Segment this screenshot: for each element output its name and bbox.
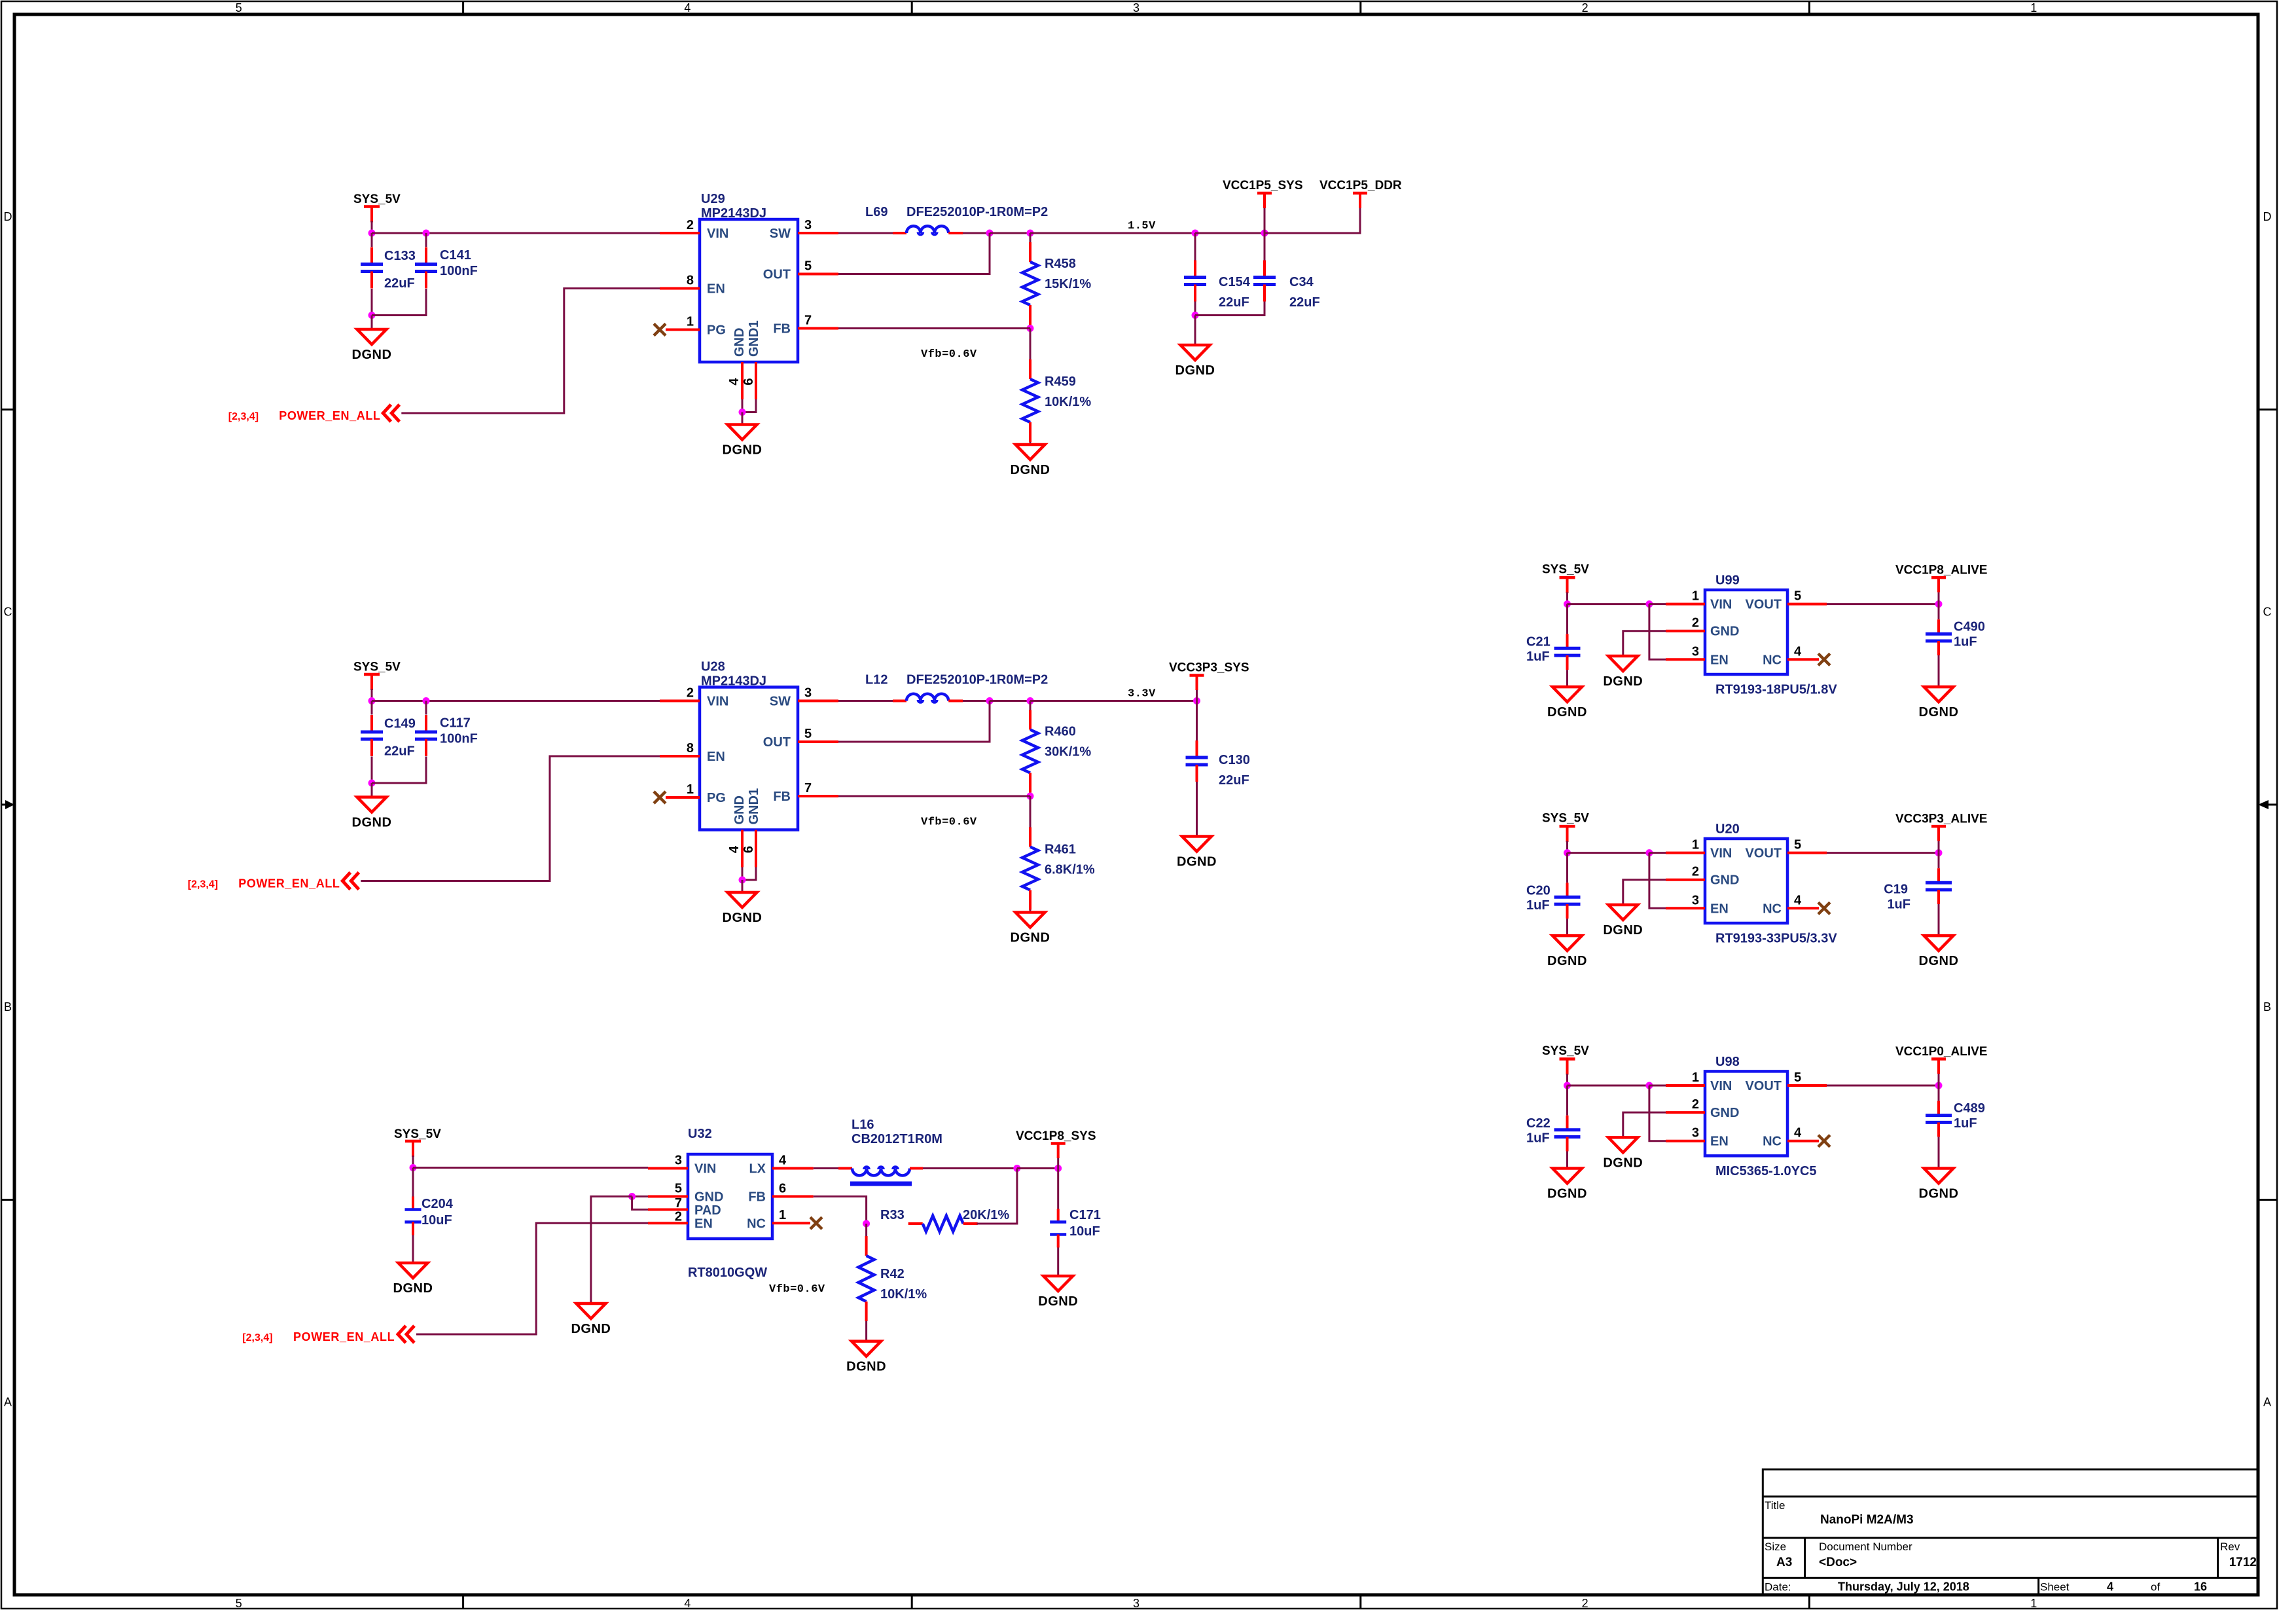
power symbol VCC3P3_SYS <box>1169 661 1249 691</box>
wire <box>1827 852 1939 854</box>
svg-text:5: 5 <box>236 1597 242 1610</box>
wire <box>1194 233 1196 261</box>
ground DGND <box>1919 936 1959 968</box>
svg-text:VIN: VIN <box>1710 847 1732 861</box>
ground DGND <box>1919 687 1959 720</box>
wire <box>412 1156 414 1168</box>
svg-text:DGND: DGND <box>1919 954 1959 968</box>
svg-text:VCC1P8_SYS: VCC1P8_SYS <box>1016 1129 1096 1143</box>
svg-text:C22: C22 <box>1526 1116 1551 1131</box>
svg-text:5: 5 <box>1794 838 1801 852</box>
pin 6 FB <box>772 1195 814 1198</box>
node GND/PAD tie <box>628 1193 636 1200</box>
wire <box>1194 302 1196 316</box>
capacitor C22 <box>1526 1116 1581 1152</box>
pin 5 GND <box>648 1195 688 1198</box>
svg-text:1.5V: 1.5V <box>1128 220 1156 232</box>
svg-text:DGND: DGND <box>1038 1294 1078 1309</box>
svg-text:7: 7 <box>804 781 812 795</box>
pin 3 SW <box>798 232 838 234</box>
no-connect on NC <box>810 1217 822 1229</box>
svg-text:PAD: PAD <box>694 1203 721 1218</box>
ground DGND <box>1603 905 1643 938</box>
wire <box>1030 329 1031 360</box>
wire <box>838 795 1030 797</box>
ground DGND <box>1175 345 1215 378</box>
pin number 7 <box>804 314 812 328</box>
svg-text:Vfb=0.6V: Vfb=0.6V <box>921 816 977 829</box>
wire <box>990 232 1030 234</box>
svg-text:MP2143DJ: MP2143DJ <box>701 674 766 689</box>
wire <box>371 783 373 797</box>
inductor L69 <box>865 205 1048 234</box>
svg-text:SYS_5V: SYS_5V <box>1542 563 1589 577</box>
pin number 4 <box>727 845 742 853</box>
svg-text:1712: 1712 <box>2229 1556 2257 1569</box>
pin 1 VIN <box>1666 1084 1705 1087</box>
wire <box>742 399 744 412</box>
pin number 7 <box>804 781 812 795</box>
svg-text:DGND: DGND <box>723 911 762 925</box>
svg-text:[2,3,4]: [2,3,4] <box>188 879 218 890</box>
wire <box>1566 841 1568 853</box>
wire <box>632 1197 648 1210</box>
capacitor C133 <box>361 247 416 291</box>
wire <box>1938 841 1940 853</box>
pin 4 NC <box>1787 907 1819 909</box>
svg-text:GND: GND <box>732 795 747 824</box>
svg-text:10uF: 10uF <box>1069 1224 1100 1239</box>
pin number 3 <box>1692 1126 1699 1140</box>
ground DGND <box>1547 687 1587 720</box>
svg-text:OUT: OUT <box>763 268 791 282</box>
capacitor C204 <box>405 1197 454 1235</box>
no-connect on NC <box>1818 1135 1830 1147</box>
pin 6 GND1 <box>755 830 757 867</box>
svg-text:U28: U28 <box>701 660 725 674</box>
wire <box>1030 700 1197 702</box>
svg-text:2: 2 <box>1692 1097 1699 1112</box>
wire <box>1938 593 1940 604</box>
wire <box>1649 604 1666 660</box>
pin 4 LX <box>772 1167 814 1170</box>
text output voltage <box>1128 220 1156 232</box>
wire <box>1827 1085 1939 1087</box>
ground DGND <box>1547 936 1587 968</box>
ground DGND <box>723 892 762 925</box>
svg-text:U20: U20 <box>1715 822 1740 837</box>
wire <box>591 1197 632 1304</box>
wire <box>1195 302 1265 316</box>
wire <box>1265 208 1360 233</box>
wire <box>742 880 744 892</box>
node feedback divider top <box>1027 230 1034 237</box>
svg-text:VCC3P3_SYS: VCC3P3_SYS <box>1169 661 1249 675</box>
pin 8 EN <box>660 287 700 290</box>
svg-text:100nF: 100nF <box>440 732 478 746</box>
svg-text:4: 4 <box>779 1154 787 1168</box>
wire <box>425 701 427 715</box>
pin number 2 <box>675 1210 682 1224</box>
wire <box>1938 1137 1940 1168</box>
svg-text:U32: U32 <box>688 1127 712 1141</box>
wire <box>1649 1085 1666 1141</box>
wire <box>977 1169 1017 1224</box>
svg-text:RT8010GQW: RT8010GQW <box>688 1266 767 1280</box>
inductor L12 <box>865 673 1048 702</box>
svg-text:C117: C117 <box>440 716 471 731</box>
wire <box>814 1197 867 1224</box>
wire <box>372 232 660 234</box>
svg-text:R42: R42 <box>880 1267 905 1281</box>
wire <box>425 233 427 247</box>
wire <box>372 289 426 316</box>
node SYS_5V / VIN <box>1564 1082 1571 1089</box>
wire <box>963 232 990 234</box>
node VCC1P8_SYS node <box>1054 1165 1062 1172</box>
svg-text:C: C <box>2263 605 2272 618</box>
svg-text:C154: C154 <box>1219 275 1251 289</box>
svg-text:DGND: DGND <box>1919 705 1959 720</box>
svg-text:R459: R459 <box>1045 374 1076 389</box>
pin number 7 <box>675 1196 682 1211</box>
wire <box>632 1195 648 1197</box>
svg-text:DGND: DGND <box>1011 931 1050 945</box>
wire <box>1195 232 1265 234</box>
svg-text:DGND: DGND <box>1177 855 1217 869</box>
svg-text:DGND: DGND <box>1919 1187 1959 1201</box>
svg-text:SYS_5V: SYS_5V <box>353 661 401 674</box>
net label POWER_EN_ALL <box>188 877 340 890</box>
pin number 8 <box>687 274 694 288</box>
svg-text:Title: Title <box>1765 1499 1785 1512</box>
wire <box>1827 603 1939 605</box>
pin number 4 <box>779 1154 787 1168</box>
wire <box>371 701 373 715</box>
ground DGND <box>1177 837 1217 869</box>
wire <box>1566 670 1568 687</box>
svg-text:FB: FB <box>748 1190 766 1205</box>
node SYS_5V / VIN <box>368 697 376 704</box>
svg-text:22uF: 22uF <box>1289 295 1320 310</box>
svg-text:B: B <box>4 1000 12 1013</box>
pin number 6 <box>742 846 756 853</box>
svg-text:[2,3,4]: [2,3,4] <box>228 411 259 422</box>
node input cap gnd <box>368 312 376 319</box>
svg-text:7: 7 <box>804 314 812 328</box>
svg-text:1: 1 <box>2030 1 2037 14</box>
svg-text:C: C <box>4 605 12 618</box>
wire <box>371 233 373 247</box>
wire <box>1196 701 1198 741</box>
wire <box>742 412 744 425</box>
ground DGND <box>393 1263 433 1296</box>
wire <box>1566 604 1568 634</box>
wire <box>1566 593 1568 604</box>
svg-text:NC: NC <box>1763 902 1782 916</box>
svg-text:22uF: 22uF <box>384 744 415 759</box>
pin number 5 <box>1794 838 1801 852</box>
svg-text:2: 2 <box>687 686 694 701</box>
svg-text:D: D <box>2263 210 2272 223</box>
capacitor C171 <box>1050 1208 1101 1248</box>
node SYS_5V / VIN <box>1564 849 1571 856</box>
power symbol VCC1P5_SYS <box>1223 179 1303 208</box>
power symbol VCC1P8_SYS <box>1016 1129 1096 1158</box>
pin 1 VIN <box>1666 852 1705 854</box>
node SW/OUT tie <box>986 697 994 704</box>
ground DGND <box>846 1341 886 1374</box>
svg-text:RT9193-18PU5/1.8V: RT9193-18PU5/1.8V <box>1715 683 1837 697</box>
pin 2 EN <box>648 1222 688 1224</box>
ground DGND <box>352 329 392 362</box>
svg-text:Vfb=0.6V: Vfb=0.6V <box>769 1283 825 1296</box>
wire <box>1649 1085 1666 1087</box>
wire <box>865 1321 867 1341</box>
wire <box>838 327 1030 329</box>
svg-text:DGND: DGND <box>723 443 762 458</box>
svg-text:DGND: DGND <box>393 1281 433 1296</box>
svg-text:R460: R460 <box>1045 725 1076 739</box>
no-connect on PG <box>654 792 666 803</box>
svg-text:C204: C204 <box>422 1197 454 1211</box>
wire <box>963 700 990 702</box>
svg-text:GND: GND <box>1710 1106 1739 1120</box>
node VCC3P3_SYS node <box>1193 697 1200 704</box>
wire <box>401 289 660 414</box>
pin number 4 <box>1794 644 1802 659</box>
resistor R458 <box>1022 242 1091 325</box>
wire <box>412 1168 414 1197</box>
svg-text:VCC1P0_ALIVE: VCC1P0_ALIVE <box>1895 1045 1987 1059</box>
svg-text:EN: EN <box>707 750 725 764</box>
wire <box>371 221 373 234</box>
svg-text:VIN: VIN <box>707 695 728 709</box>
wire <box>1938 1074 1940 1085</box>
svg-text:4: 4 <box>2107 1580 2113 1594</box>
svg-text:22uF: 22uF <box>1219 773 1249 788</box>
wire <box>1057 1248 1059 1277</box>
wire <box>1030 233 1031 242</box>
IC U29 MP2143DJ <box>700 192 798 362</box>
pin 5 VOUT <box>1787 603 1827 606</box>
pin number 1 <box>687 782 694 797</box>
svg-text:EN: EN <box>1710 1135 1729 1149</box>
wire <box>742 867 744 881</box>
node GND/GND1 tie <box>739 409 746 416</box>
svg-text:3: 3 <box>675 1154 682 1168</box>
svg-text:MP2143DJ: MP2143DJ <box>701 206 766 221</box>
wire <box>838 700 893 702</box>
pin 4 GND <box>741 830 744 867</box>
svg-text:U98: U98 <box>1715 1055 1740 1069</box>
svg-text:GND1: GND1 <box>747 320 761 357</box>
pin 7 FB <box>798 327 838 330</box>
svg-text:2: 2 <box>675 1210 682 1224</box>
svg-text:PG: PG <box>707 791 726 805</box>
pin number 3 <box>804 218 812 232</box>
svg-text:DGND: DGND <box>1547 954 1587 968</box>
svg-text:POWER_EN_ALL: POWER_EN_ALL <box>238 877 340 890</box>
wire <box>372 700 660 702</box>
svg-text:Rev: Rev <box>2220 1541 2240 1553</box>
svg-text:DFE252010P-1R0M=P2: DFE252010P-1R0M=P2 <box>906 205 1048 219</box>
ground DGND <box>1919 1169 1959 1201</box>
svg-text:R461: R461 <box>1045 843 1076 857</box>
wire <box>1649 603 1666 605</box>
pin number 4 <box>1794 893 1802 907</box>
pin number 2 <box>1692 1097 1699 1112</box>
svg-text:7: 7 <box>675 1196 682 1211</box>
ground DGND <box>1011 445 1050 477</box>
pin 5 OUT <box>798 273 838 276</box>
svg-text:R458: R458 <box>1045 257 1076 271</box>
svg-text:LX: LX <box>749 1162 766 1176</box>
svg-text:NanoPi M2A/M3: NanoPi M2A/M3 <box>1820 1513 1914 1527</box>
node C141 tap <box>423 230 430 237</box>
wire <box>742 867 756 881</box>
pin number 2 <box>687 218 694 232</box>
svg-text:VOUT: VOUT <box>1745 847 1782 861</box>
svg-text:2: 2 <box>1692 865 1699 879</box>
pin 3 EN <box>1666 1140 1705 1142</box>
node GND/GND1 tie <box>739 877 746 884</box>
svg-text:RT9193-33PU5/3.3V: RT9193-33PU5/3.3V <box>1715 932 1837 946</box>
svg-text:B: B <box>2263 1000 2271 1013</box>
svg-text:DGND: DGND <box>1603 674 1643 689</box>
svg-text:DGND: DGND <box>1547 705 1587 720</box>
node VCC3P3_ALIVE node <box>1935 849 1943 856</box>
wire <box>371 289 373 316</box>
power symbol SYS_5V (U99 input) <box>1542 563 1589 594</box>
off-page connector POWER_EN_ALL <box>342 873 359 890</box>
node VCC1P0_ALIVE node <box>1935 1082 1943 1089</box>
node FB node <box>1027 793 1034 800</box>
resistor R42 <box>859 1236 927 1321</box>
svg-text:1: 1 <box>687 782 694 797</box>
power symbol VCC1P8_ALIVE <box>1895 564 1987 593</box>
node VIN/EN tie <box>1645 849 1653 856</box>
pin 6 GND1 <box>755 362 757 399</box>
svg-text:VCC1P5_SYS: VCC1P5_SYS <box>1223 179 1303 192</box>
svg-text:VIN: VIN <box>694 1162 716 1176</box>
power symbol SYS_5V (input rail) <box>353 192 401 223</box>
pin 1 PG <box>666 796 700 799</box>
pin number 4 <box>1794 1126 1802 1140</box>
wire <box>413 1167 648 1169</box>
wire <box>1030 442 1031 445</box>
svg-text:SW: SW <box>770 227 791 241</box>
pin number 3 <box>1692 644 1699 659</box>
wire <box>1030 325 1031 329</box>
node FB node <box>863 1220 870 1228</box>
pin 7 FB <box>798 795 838 797</box>
svg-text:EN: EN <box>1710 653 1729 667</box>
wire <box>371 689 373 701</box>
svg-text:1: 1 <box>2030 1597 2037 1610</box>
svg-text:NC: NC <box>1763 653 1782 667</box>
svg-text:1uF: 1uF <box>1954 635 1977 649</box>
wire <box>1264 208 1266 233</box>
pin 1 PG <box>666 329 700 331</box>
svg-text:3.3V: 3.3V <box>1128 688 1156 701</box>
pin number 1 <box>1692 1070 1699 1085</box>
pin number 2 <box>1692 616 1699 630</box>
pin 3 EN <box>1666 658 1705 661</box>
pin 5 VOUT <box>1787 1084 1827 1087</box>
svg-text:NC: NC <box>1763 1135 1782 1149</box>
svg-text:A: A <box>4 1395 12 1408</box>
wire <box>1030 910 1031 913</box>
node input cap gnd <box>368 780 376 787</box>
node C154/C34 gnd tie <box>1192 312 1199 319</box>
svg-text:2: 2 <box>687 218 694 232</box>
pin number 2 <box>1692 865 1699 879</box>
svg-text:15K/1%: 15K/1% <box>1045 277 1091 291</box>
wire <box>1623 1112 1666 1137</box>
wire <box>1566 1152 1568 1169</box>
off-page connector POWER_EN_ALL <box>398 1326 414 1343</box>
capacitor C19 <box>1884 868 1952 911</box>
svg-text:GND: GND <box>1710 625 1739 639</box>
svg-text:CB2012T1R0M: CB2012T1R0M <box>852 1132 942 1146</box>
node SYS_5V / VIN <box>368 230 376 237</box>
svg-text:C20: C20 <box>1526 884 1551 898</box>
capacitor C20 <box>1526 883 1581 919</box>
wire <box>412 1235 414 1264</box>
svg-text:Document Number: Document Number <box>1819 1541 1912 1553</box>
no-connect on NC <box>1818 902 1830 914</box>
svg-text:C489: C489 <box>1954 1101 1985 1116</box>
svg-text:C19: C19 <box>1884 883 1908 897</box>
svg-text:SYS_5V: SYS_5V <box>353 192 401 206</box>
svg-text:22uF: 22uF <box>384 276 415 291</box>
wire <box>1938 853 1940 869</box>
pin 4 GND <box>741 362 744 399</box>
svg-text:6: 6 <box>742 378 756 385</box>
text Vfb <box>921 816 977 829</box>
svg-text:C133: C133 <box>384 249 416 263</box>
svg-text:4: 4 <box>684 1 691 14</box>
resistor R461 <box>1022 828 1095 910</box>
svg-text:GND: GND <box>694 1190 723 1205</box>
pin number 1 <box>779 1208 786 1222</box>
pin 2 GND <box>1666 879 1705 881</box>
svg-text:EN: EN <box>707 282 725 297</box>
svg-text:FB: FB <box>773 322 791 337</box>
svg-text:A: A <box>2263 1395 2271 1408</box>
node L16 out / FB divider <box>1013 1165 1020 1172</box>
svg-text:C171: C171 <box>1069 1208 1101 1222</box>
IC U20 RT9193-33PU5/3.3V <box>1705 822 1837 946</box>
ground DGND <box>571 1304 611 1336</box>
svg-text:VOUT: VOUT <box>1745 1079 1782 1093</box>
svg-text:GND: GND <box>732 328 747 357</box>
pin number 5 <box>804 727 812 741</box>
svg-text:2: 2 <box>1692 616 1699 630</box>
svg-text:8: 8 <box>687 274 694 288</box>
svg-text:6: 6 <box>742 846 756 853</box>
svg-text:2: 2 <box>1582 1597 1588 1610</box>
wire <box>371 757 373 784</box>
wire <box>1568 1085 1649 1087</box>
wire <box>1566 919 1568 936</box>
power symbol VCC3P3_ALIVE <box>1895 812 1987 841</box>
wire <box>1568 603 1649 605</box>
svg-text:4: 4 <box>684 1597 691 1610</box>
svg-text:3: 3 <box>1133 1597 1139 1610</box>
svg-text:VOUT: VOUT <box>1745 598 1782 612</box>
